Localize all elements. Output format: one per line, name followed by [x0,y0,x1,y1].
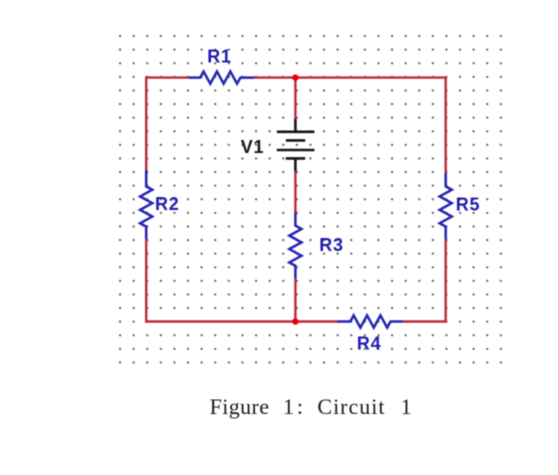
svg-text:R5: R5 [456,195,480,215]
svg-text::: : [297,394,303,419]
svg-text:R2: R2 [155,194,179,214]
svg-text:1: 1 [401,394,412,419]
svg-text:R1: R1 [207,47,231,67]
svg-text:V1: V1 [241,137,264,157]
svg-text:R3: R3 [319,235,343,255]
svg-text:Figure: Figure [210,394,270,419]
svg-text:R4: R4 [357,334,381,354]
svg-text:Circuit: Circuit [317,394,385,419]
svg-text:1: 1 [283,394,294,419]
